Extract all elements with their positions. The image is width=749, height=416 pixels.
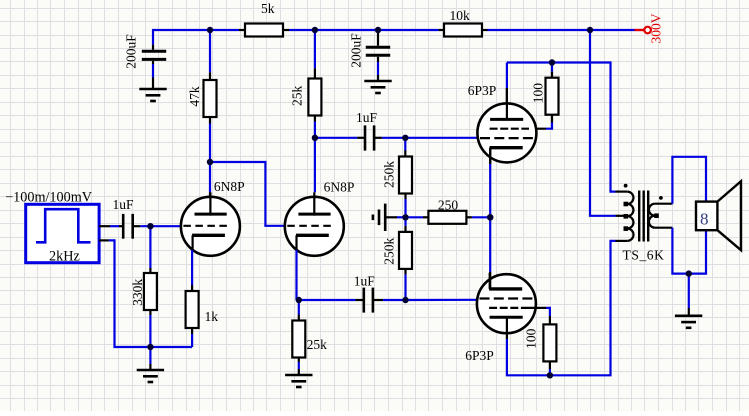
svg-text:1uF: 1uF bbox=[356, 110, 378, 125]
svg-text:6N8P: 6N8P bbox=[214, 179, 245, 194]
svg-text:8: 8 bbox=[700, 209, 709, 228]
svg-text:25k: 25k bbox=[307, 337, 328, 352]
svg-text:TS_6K: TS_6K bbox=[622, 248, 664, 263]
svg-text:6P3P: 6P3P bbox=[468, 83, 497, 98]
svg-text:200uF: 200uF bbox=[123, 34, 138, 69]
svg-text:6N8P: 6N8P bbox=[324, 180, 355, 195]
svg-text:25k: 25k bbox=[290, 86, 305, 107]
svg-text:250k: 250k bbox=[382, 237, 397, 264]
svg-text:1k: 1k bbox=[204, 309, 218, 324]
svg-text:300V: 300V bbox=[649, 13, 664, 43]
svg-text:100: 100 bbox=[530, 83, 545, 104]
svg-text:250: 250 bbox=[438, 197, 459, 212]
svg-text:2kHz: 2kHz bbox=[49, 248, 80, 264]
svg-text:47k: 47k bbox=[187, 86, 202, 107]
svg-text:6P3P: 6P3P bbox=[465, 348, 494, 363]
svg-text:200uF: 200uF bbox=[348, 33, 363, 68]
svg-text:1uF: 1uF bbox=[354, 274, 376, 289]
svg-text:5k: 5k bbox=[261, 1, 275, 16]
svg-text:−100m/100mV: −100m/100mV bbox=[5, 190, 93, 206]
svg-text:10k: 10k bbox=[449, 8, 470, 23]
svg-text:1uF: 1uF bbox=[112, 197, 134, 212]
svg-text:100: 100 bbox=[524, 328, 539, 349]
svg-text:330k: 330k bbox=[130, 279, 145, 306]
svg-text:250k: 250k bbox=[382, 161, 397, 188]
